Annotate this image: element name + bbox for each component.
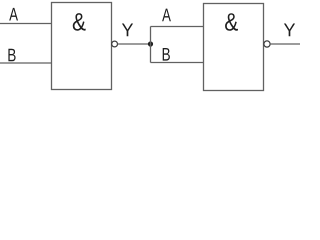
- NAND gate U1 body: [52, 3, 112, 90]
- label B (U2 input): [163, 48, 170, 61]
- label A (U1 input): [9, 8, 18, 21]
- NAND gate U2 body: [204, 4, 264, 91]
- function label & (U1): [73, 13, 86, 31]
- junction node dot: [148, 41, 153, 46]
- label B (U1 input): [8, 49, 15, 62]
- label A (U2 input): [162, 9, 171, 22]
- wire junction to U2 input B: [151, 62, 204, 64]
- label Y (U2 output): [284, 24, 295, 37]
- wire junction vertical branch: [150, 27, 152, 63]
- wire U1 output to junction: [118, 43, 151, 45]
- label Y (U1 output): [122, 24, 133, 37]
- wire junction to U2 input A: [151, 26, 204, 28]
- wire input A to U1: [0, 23, 52, 25]
- U1 output inversion bubble: [112, 41, 118, 47]
- function label & (U2): [225, 13, 238, 31]
- U2 output inversion bubble: [264, 41, 270, 47]
- wire U2 output to edge: [270, 43, 300, 45]
- wire input B to U1: [0, 62, 52, 64]
